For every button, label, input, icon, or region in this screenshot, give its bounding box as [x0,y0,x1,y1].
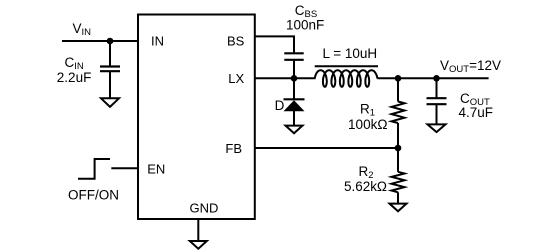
svg-text:4.7uF: 4.7uF [459,105,494,120]
resistor R2 zigzag [392,172,405,193]
diode D1 cathode bar [284,98,305,100]
svg-text:R1: R1 [360,102,375,119]
capacitor C_OUT plates [427,97,447,99]
inductor L1 core bar [315,65,378,67]
capacitor C_BS plates [284,52,303,54]
resistor R1 top lead [397,78,399,101]
svg-text:100kΩ: 100kΩ [348,117,388,132]
ground for D1 [286,126,303,134]
capacitor C_OUT bottom lead [436,104,438,124]
svg-text:L = 10uH: L = 10uH [323,46,378,61]
diode D1 anode lead from LX [293,78,295,99]
svg-text:OFF/ON: OFF/ON [68,187,119,202]
node COUT junction [433,75,440,82]
wire FB [255,147,398,149]
ground for IC GND [190,241,207,249]
svg-text:LX: LX [228,71,244,86]
op-amp U1 regulator IC body [138,15,255,220]
capacitor C_IN lead [109,41,111,67]
svg-text:GND: GND [190,200,219,215]
svg-text:VIN: VIN [73,21,92,38]
node R1 top junction [395,75,402,82]
node LX junction [291,75,298,82]
svg-text:D: D [275,98,285,113]
resistor R2 top lead [397,148,399,172]
wire OFF/ON step symbol [78,159,110,179]
inductor L1 coil [315,70,378,87]
capacitor C_IN bottom lead [109,71,111,98]
ground for C_IN [101,98,119,107]
node VIN junction [107,38,114,45]
wire BS [255,36,294,53]
svg-text:BS: BS [227,33,245,48]
resistor R1 bottom lead [397,123,399,148]
ground for C_OUT [428,124,446,132]
diode D1 triangle [284,100,305,111]
wire EN [111,167,138,169]
svg-text:100nF: 100nF [286,18,324,33]
wire VOUT [377,77,488,79]
wire GND stub [197,219,199,241]
resistor R2 bottom lead [397,192,399,203]
capacitor C_OUT top lead [436,78,438,98]
svg-text:2.2uF: 2.2uF [57,70,92,85]
resistor R1 zigzag [392,102,405,124]
capacitor C_BS bottom lead [293,60,295,79]
svg-text:5.62kΩ: 5.62kΩ [344,179,387,194]
ground for R2 [390,204,407,212]
wire LX [255,77,316,79]
wire VIN input [62,40,139,42]
svg-text:IN: IN [151,33,164,48]
diode D1 bottom lead [293,111,295,126]
node FB junction [395,145,402,152]
svg-text:EN: EN [147,161,165,176]
capacitor C_IN plates [100,65,120,67]
svg-text:VOUT=12V: VOUT=12V [440,58,501,75]
svg-text:FB: FB [225,141,242,156]
